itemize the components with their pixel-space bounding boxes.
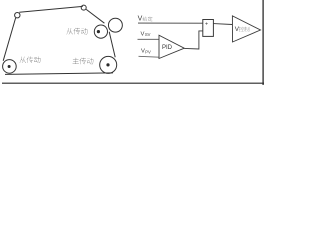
wire summing box to output amp — [213, 23, 232, 26]
wire Vsv to PID amp — [138, 38, 160, 40]
wire Vpv to PID amp — [139, 55, 160, 58]
axle dot bottom-left pulley — [8, 65, 11, 68]
label 从传动 cluster — [66, 28, 87, 35]
output amplifier triangle — [232, 16, 260, 42]
axle dot main pulley — [106, 63, 109, 66]
table border line at bottom edge — [2, 82, 264, 84]
summing box — [203, 20, 214, 37]
svg-text:PID: PID — [162, 45, 173, 51]
roller circle right of cluster — [108, 18, 122, 32]
driven pulley of cluster — [94, 25, 107, 38]
axle dot cluster pulley — [97, 30, 100, 33]
driven pulley bottom-left — [3, 60, 17, 74]
label 主传动 — [73, 58, 94, 64]
feedback wire PID output to summing box — [184, 31, 203, 49]
wire V给定 to summing box — [138, 22, 203, 24]
svg-text:PV: PV — [145, 50, 151, 55]
table border line at right edge — [262, 0, 264, 85]
label 控制 subscript — [239, 27, 249, 32]
main drive pulley bottom-right — [100, 56, 117, 73]
belt diagonal run top-right — [86, 9, 104, 23]
svg-text:V: V — [141, 31, 145, 37]
PID amplifier triangle — [159, 35, 184, 58]
idler pulley top-right — [81, 5, 86, 10]
label 给定 subscript — [143, 17, 153, 22]
idler pulley top-left — [15, 13, 20, 18]
svg-text:SV: SV — [145, 32, 151, 37]
belt left run — [3, 18, 15, 61]
svg-text:V: V — [138, 15, 143, 22]
belt run cluster to main pulley — [109, 32, 115, 58]
label 从传动 bottom-left — [20, 56, 41, 63]
belt bottom run — [5, 73, 113, 75]
svg-text:+: + — [205, 21, 208, 27]
belt top run — [19, 6, 83, 12]
